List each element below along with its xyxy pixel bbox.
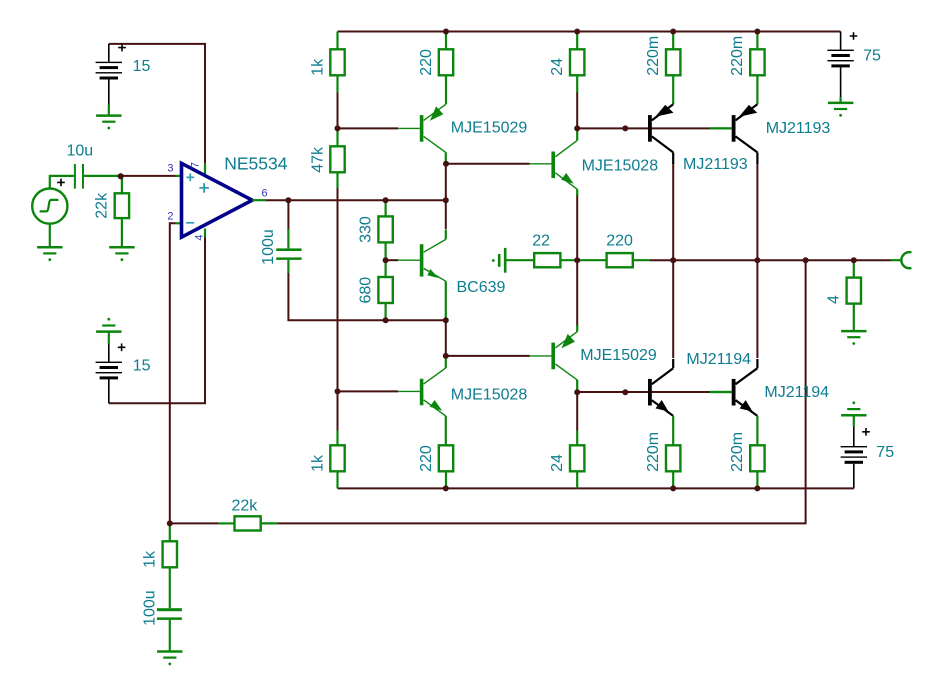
svg-text:2: 2: [167, 211, 173, 223]
wire input node to pin 3: [121, 175, 176, 177]
label 22k input: [94, 192, 111, 219]
voltage source VG1: [32, 176, 74, 247]
svg-text:4: 4: [193, 234, 205, 240]
svg-text:4: 4: [826, 295, 843, 304]
transistor MJ21194 (output NPN 2): [710, 359, 757, 445]
wire mid ground-return rail: [288, 272, 445, 320]
label 22k feedback: [232, 497, 259, 514]
wire op-amp output bus: [265, 199, 446, 201]
svg-text:MJ21193: MJ21193: [683, 156, 748, 173]
output connector: [891, 252, 912, 268]
polarity + battery 15 bottom: [118, 344, 126, 352]
label BC639: [457, 279, 506, 296]
label 15 bottom: [133, 357, 151, 374]
svg-text:22k: 22k: [94, 192, 111, 219]
resistor 24 (upper): [570, 32, 584, 93]
wire feedback from output: [278, 260, 806, 523]
resistor 22k (input bias): [115, 177, 129, 247]
wire output to MJ21194 collector 2: [756, 260, 758, 358]
resistor 22 (zobel): [534, 253, 560, 267]
resistor 680: [378, 260, 392, 320]
capacitor 10u (input coupling): [74, 164, 119, 189]
label 24 lower: [549, 454, 566, 472]
pin 6: [262, 188, 268, 200]
ground below battery 75 top: [828, 103, 853, 117]
label 22 zobel: [532, 232, 550, 249]
wire node A to base of MJE15028: [446, 163, 530, 165]
wire output node row: [649, 259, 890, 261]
svg-text:MJE15028: MJE15028: [451, 386, 528, 403]
wire MJE15028 emitter column: [576, 194, 578, 327]
ground below battery 15: [96, 116, 121, 130]
label 24 upper: [549, 58, 566, 76]
label MJE15029 lower: [580, 347, 657, 364]
svg-text:24: 24: [549, 454, 566, 472]
battery 75 (positive rail): [827, 32, 853, 103]
svg-text:MJE15029: MJE15029: [451, 120, 528, 137]
svg-text:220: 220: [418, 49, 435, 76]
label MJ21193 output 1: [683, 156, 748, 173]
svg-text:100u: 100u: [260, 229, 277, 265]
resistor 220 (zobel): [607, 253, 650, 267]
resistor 1k (upper): [330, 32, 344, 93]
wire 47k down to lower base node: [337, 188, 339, 392]
svg-text:75: 75: [876, 444, 894, 461]
label 1k feedback: [142, 550, 159, 568]
wire 24 to upper base node: [576, 92, 578, 128]
resistor 22k (feedback): [219, 516, 278, 530]
svg-text:220m: 220m: [729, 432, 746, 472]
svg-text:220m: 220m: [645, 36, 662, 76]
label 47k: [309, 146, 326, 173]
label 220 lower: [418, 445, 435, 472]
resistor 24 (lower): [570, 431, 584, 489]
pin 4: [193, 234, 205, 240]
label 75 top: [863, 47, 881, 64]
svg-text:15: 15: [133, 58, 151, 75]
label MJ21194 output 2: [764, 384, 829, 401]
wire MJE15029 collector to lower bases: [577, 391, 710, 393]
svg-text:220: 220: [418, 445, 435, 472]
ground below 100u: [157, 652, 182, 666]
transistor MJ21193 (output PNP 1): [648, 104, 674, 164]
wire bottom rail (-75 V): [338, 487, 854, 489]
svg-text:NE5534: NE5534: [224, 154, 288, 174]
label 75 bottom: [876, 444, 894, 461]
wire upper base node to MJ21193 bases: [577, 127, 710, 129]
wire between MJ21194 bases (pin): [710, 391, 732, 393]
wire lower base node to bottom driver: [338, 390, 399, 392]
wire pin 2 to feedback node: [170, 223, 176, 523]
transistor MJE15029 (upper PNP pre-driver): [398, 104, 446, 162]
transistor MJE15029 (lower PNP driver): [530, 325, 578, 391]
battery 15 (positive supply): [96, 44, 122, 115]
junction input node: [118, 173, 124, 179]
label 220m lower 1: [645, 432, 662, 472]
resistor 220m (lower 1): [666, 445, 680, 488]
label 220m upper 2: [729, 36, 746, 76]
transistor BC639 (Vbe multiplier): [398, 230, 446, 320]
svg-text:15: 15: [133, 357, 151, 374]
svg-text:22: 22: [532, 232, 550, 249]
svg-text:220m: 220m: [729, 36, 746, 76]
wire 1k to 47k junction column: [337, 92, 339, 128]
wire pin 4 to negative battery: [109, 237, 205, 403]
resistor 220m (upper 2): [750, 32, 764, 105]
svg-text:1k: 1k: [309, 454, 326, 472]
battery 15 (negative supply): [96, 318, 122, 403]
svg-text:22k: 22k: [232, 497, 259, 514]
capacitor (zobel, open end): [492, 248, 534, 273]
label MJ21194 output 1: [686, 351, 751, 368]
polarity + battery 15 top: [118, 44, 126, 52]
resistor 220m (upper 1): [666, 32, 680, 105]
polarity + battery 75 bottom: [862, 428, 870, 436]
svg-text:220m: 220m: [645, 432, 662, 472]
wire 24 bottom column: [576, 392, 578, 430]
wire node A vertical (VAS collector column): [445, 164, 447, 230]
wire 100u top lead: [287, 200, 289, 229]
label 220m upper 1: [645, 36, 662, 76]
op-amp U1 NE5534: [176, 163, 267, 237]
label 100u feedback: [142, 590, 159, 626]
label 220 upper: [418, 49, 435, 76]
pin 3: [167, 163, 173, 175]
wire zobel 22-220 link: [560, 259, 606, 261]
transistor MJ21194 (output NPN 1): [648, 359, 673, 445]
label 1k lower: [309, 454, 326, 472]
wire BC639 base: [386, 259, 399, 261]
ground below load: [841, 331, 866, 345]
label 220 zobel: [606, 232, 633, 249]
ground below source: [37, 247, 62, 261]
svg-text:10u: 10u: [67, 143, 94, 160]
transistor MJE15028 (lower NPN driver): [398, 358, 446, 446]
svg-text:47k: 47k: [309, 146, 326, 173]
svg-text:MJ21194: MJ21194: [764, 384, 829, 401]
wire top supply rail (+75 V): [338, 31, 841, 33]
resistor 47k: [330, 128, 344, 188]
label 680: [357, 277, 374, 304]
label 10u: [67, 143, 94, 160]
resistor 4 (load): [847, 260, 861, 331]
label MJE15028 lower: [451, 386, 528, 403]
svg-text:680: 680: [357, 277, 374, 304]
label 220m lower 2: [729, 432, 746, 472]
resistor 1k (lower): [330, 431, 344, 489]
label MJ21193 output 2: [766, 120, 831, 137]
wire between MJ21193 bases (pin): [710, 127, 732, 129]
resistor 220m (lower 2): [750, 445, 764, 488]
svg-text:MJ21193: MJ21193: [766, 120, 831, 137]
svg-text:75: 75: [863, 47, 881, 64]
battery 75 (negative rail): [841, 401, 867, 488]
resistor 220 (lower emitter): [439, 445, 453, 488]
label 330: [357, 216, 374, 243]
resistor 220 (upper emitter): [439, 32, 453, 105]
label MJE15029 upper: [451, 120, 528, 137]
label MJE15028 upper: [582, 158, 659, 175]
resistor 330: [378, 200, 392, 260]
svg-text:330: 330: [357, 216, 374, 243]
label NE5534: [224, 154, 288, 174]
svg-text:MJE15029: MJE15029: [580, 347, 657, 364]
transistor MJE15028 (upper NPN driver): [530, 130, 578, 197]
pin 7: [190, 162, 202, 168]
capacitor 100u (feedback): [157, 608, 182, 651]
label 4 load: [826, 295, 843, 304]
wire MJ21193 collector 1 to output: [672, 163, 674, 260]
svg-text:1k: 1k: [309, 58, 326, 76]
resistor 1k (feedback shunt): [163, 523, 177, 608]
wire lower driver to 1k column: [337, 391, 339, 430]
polarity + of 10u: [57, 179, 65, 187]
polarity + battery 75 top: [850, 32, 858, 40]
svg-text:MJ21194: MJ21194: [686, 351, 751, 368]
label 100u op-amp: [260, 229, 277, 265]
svg-text:7: 7: [190, 162, 202, 168]
pin 2: [167, 211, 173, 223]
wire op-amp V+ supply (battery 15 to pin 7): [109, 44, 205, 164]
wire MJ21193 collector 2 to output: [756, 163, 758, 260]
svg-text:100u: 100u: [142, 590, 159, 626]
wire output to MJ21194 collector 1: [672, 260, 674, 358]
capacitor 100u (op-amp output): [276, 229, 301, 273]
wire base of upper MJE15029: [338, 127, 399, 129]
svg-text:1k: 1k: [142, 550, 159, 568]
svg-text:6: 6: [262, 188, 268, 200]
svg-text:3: 3: [167, 163, 173, 175]
label 15 top: [133, 58, 151, 75]
ground below 22k: [109, 247, 134, 261]
wire lower rail node to MJE15029 base: [446, 322, 530, 356]
label 1k upper: [309, 58, 326, 76]
svg-text:220: 220: [606, 232, 633, 249]
svg-text:BC639: BC639: [457, 279, 506, 296]
wire feedback node to 22k: [170, 522, 219, 524]
transistor MJ21193 (output PNP 2): [710, 104, 757, 164]
svg-text:24: 24: [549, 58, 566, 76]
svg-text:MJE15028: MJE15028: [582, 158, 659, 175]
